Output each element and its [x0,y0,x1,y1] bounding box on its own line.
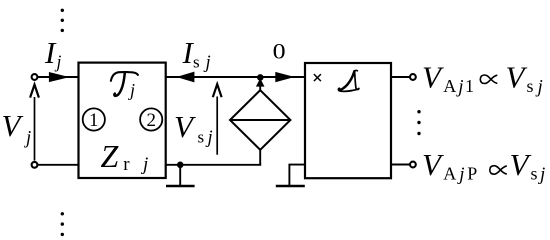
svg-text:s: s [531,164,538,184]
svg-text:I: I [44,35,57,70]
amplifier U1 box [305,63,391,178]
dependent current source (diamond) [230,90,290,150]
wire top-left [38,76,78,78]
svg-text:V: V [174,109,196,144]
svg-text:V: V [422,147,444,182]
label Tj (script T) [111,72,138,96]
wire bottom-middle [166,164,261,166]
arrowhead toward amplifier [275,72,294,82]
x marker at input [314,74,321,81]
node: junction dot on bottom wire [177,162,184,169]
terminal circle bottom-left [32,162,38,168]
pin label 1 (circled) [83,108,105,130]
vertical ellipsis bottom-left [61,212,64,236]
output wire P [391,164,410,166]
svg-text:r: r [123,154,130,175]
svg-text:V: V [506,59,528,94]
svg-text:2: 2 [146,110,156,131]
svg-text:j: j [55,51,62,71]
label VAj1 ∝ Vsj [422,59,543,97]
svg-text:A: A [443,164,456,184]
svg-text:j: j [204,53,211,73]
arrowhead Ij [49,72,70,82]
svg-text:j: j [24,129,31,149]
svg-text:1: 1 [89,110,99,131]
terminal circle top-left [32,74,38,80]
label VAjP ∝ Vsj [422,147,545,185]
svg-text:s: s [193,53,200,72]
arrow Vsj (source voltage) [216,97,218,155]
arrow Vj (port voltage) [34,97,36,161]
vertical ellipsis top-left [61,9,64,32]
connector diamond top to junction with up arrowhead [259,78,261,91]
svg-text:j: j [128,80,135,100]
wire top-middle [166,76,305,78]
svg-text:0: 0 [273,40,286,64]
connector diamond bottom to wire [259,150,261,165]
ground 1 [179,165,181,186]
ground 2 (amplifier reference) [289,165,305,186]
label A (script A) [339,70,359,91]
svg-text:s: s [527,76,534,96]
svg-text:V: V [2,108,24,143]
svg-text:1: 1 [465,76,474,96]
vertical ellipsis right (between outputs) [417,110,420,135]
svg-text:Z: Z [101,138,120,174]
svg-text:s: s [198,128,205,147]
svg-text:A: A [443,76,456,96]
svg-text:P: P [467,164,477,184]
svg-text:j: j [206,128,213,148]
svg-text:V: V [422,59,444,94]
two-port network box Tj [79,63,166,178]
node: junction dot on top wire [257,74,264,81]
arrowhead Isj (pointing left) [176,72,194,83]
svg-text:V: V [510,147,532,182]
wire bottom-left [38,164,78,166]
pin label 2 (circled) [140,108,162,130]
output wire 1 [391,76,410,78]
